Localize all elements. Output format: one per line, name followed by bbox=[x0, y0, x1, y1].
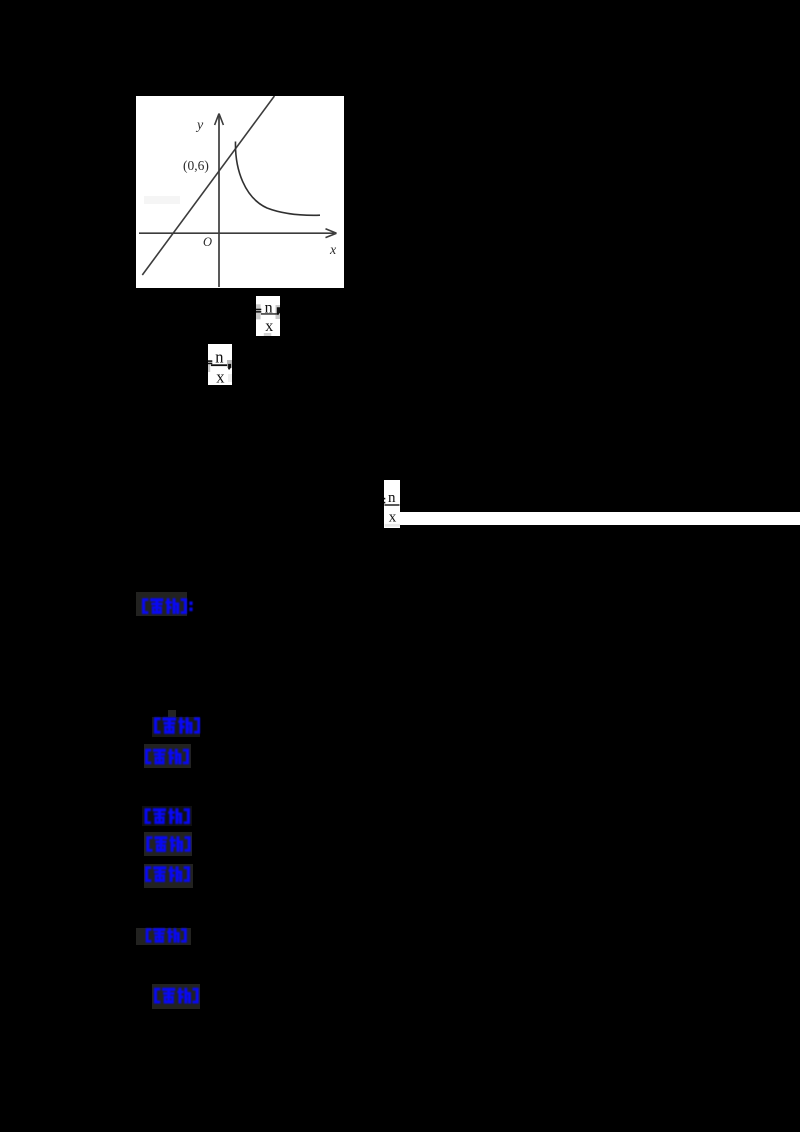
graph figure: white image box with line y=ax+6 and hyperbola branch bbox=[136, 96, 344, 288]
blue label 4 bbox=[142, 806, 192, 826]
blue label 2 : indented bbox=[168, 710, 176, 718]
svg-text:x: x bbox=[216, 367, 225, 385]
svg-text:x: x bbox=[329, 243, 337, 258]
hyperbola branch bbox=[235, 142, 320, 216]
svg-text:n: n bbox=[215, 347, 223, 366]
blue label 3 : highlighted bbox=[144, 744, 192, 768]
blue label 6 : highlighted bbox=[144, 864, 193, 888]
fraction image 2: = n/x , bbox=[208, 344, 232, 385]
straight line through (0,6) bbox=[142, 96, 274, 275]
glyph defs for blurry CJK-like blue labels bbox=[0, 0, 1, 1]
svg-text:y: y bbox=[195, 118, 204, 133]
white band row bbox=[384, 512, 800, 526]
y-axis bbox=[218, 116, 220, 287]
blue label 7 : highlighted bbox=[136, 928, 191, 945]
blue label 5 : highlighted bbox=[144, 832, 193, 856]
svg-text:x: x bbox=[265, 318, 273, 335]
blue label 8 : indented, highlighted bbox=[152, 984, 200, 1009]
svg-text:O: O bbox=[203, 235, 212, 249]
svg-text:n: n bbox=[388, 490, 396, 506]
svg-text:(0,6): (0,6) bbox=[183, 158, 209, 173]
x-axis bbox=[139, 232, 334, 234]
fraction image 1: = n/x , bbox=[256, 296, 280, 336]
svg-text:x: x bbox=[389, 509, 397, 525]
blue label 1 : highlighted, with colon bbox=[136, 592, 187, 617]
fraction image 3: n/x over band bbox=[384, 480, 400, 528]
faint scan smudge bbox=[144, 196, 180, 204]
